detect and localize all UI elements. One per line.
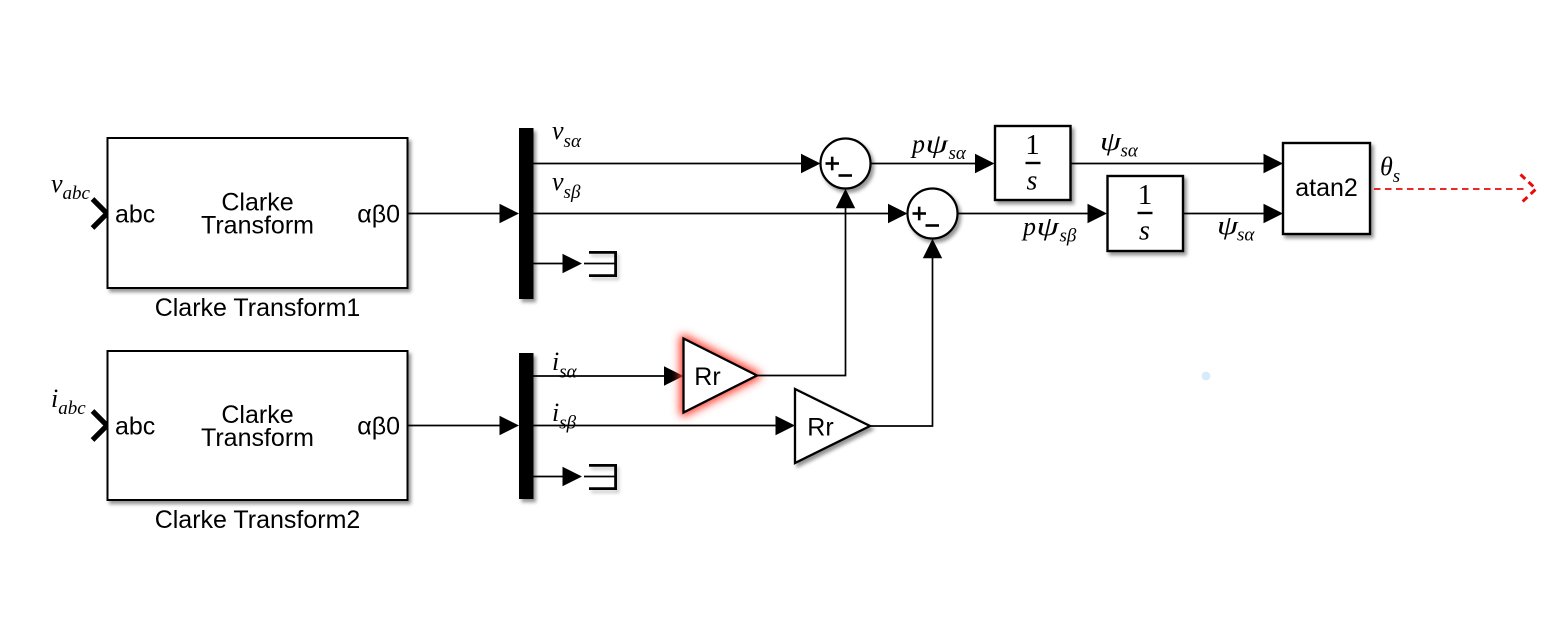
signal label i_sa xyxy=(552,347,578,383)
svg-text:Transform: Transform xyxy=(201,212,314,240)
svg-text:αβ0: αβ0 xyxy=(357,413,400,441)
wire Sum2 to Integrator2 xyxy=(958,213,1089,215)
demux Demux1 xyxy=(519,128,534,299)
terminator Terminator1 xyxy=(584,252,616,275)
signal label i_sb xyxy=(552,398,577,434)
svg-text:abc: abc xyxy=(115,201,155,229)
integrator block Integrator1 xyxy=(995,126,1071,200)
wire v_sa : demux1 out1 to Sum1 xyxy=(534,163,802,165)
svg-text:abc: abc xyxy=(115,413,155,441)
wire demux1 out3 to Terminator1 xyxy=(534,263,564,265)
signal label p psi_sa xyxy=(910,129,967,164)
wire v_sb : demux1 out2 to Sum2 xyxy=(534,213,889,215)
svg-text:αβ0: αβ0 xyxy=(357,201,400,229)
svg-text:Rr: Rr xyxy=(807,414,833,442)
svg-text:sα: sα xyxy=(1237,225,1255,246)
wire i_sb : demux2 out2 to Gain Rr2 xyxy=(534,425,777,427)
svg-text:Transform: Transform xyxy=(201,424,314,452)
atan2 block xyxy=(1283,143,1370,234)
svg-text:p: p xyxy=(910,130,925,159)
wire Rr2 to Sum2 (right then up) xyxy=(870,258,933,427)
svg-text:ψ: ψ xyxy=(1100,127,1122,156)
Clarke Transform1 block xyxy=(108,138,408,288)
svg-text:Clarke Transform2: Clarke Transform2 xyxy=(155,506,361,534)
signal label psi_sa (top) xyxy=(1100,127,1139,162)
cursor dot (light blue) xyxy=(1202,372,1211,381)
wire demux2 out3 to Terminator2 xyxy=(534,476,564,478)
output label theta_s xyxy=(1380,152,1400,187)
input port chevron for Clarke Transform2 xyxy=(93,411,108,440)
input port label i_abc xyxy=(51,384,86,419)
svg-text:1: 1 xyxy=(1138,179,1153,211)
wire Clarke Transform2 to Demux2 xyxy=(409,425,501,427)
wire Integrator2 to atan2 xyxy=(1184,213,1265,215)
gain block Rr1 (selected, red glow) xyxy=(684,339,758,413)
demux Demux2 xyxy=(519,353,534,499)
svg-text:sα: sα xyxy=(1121,141,1139,162)
svg-text:p: p xyxy=(1021,212,1036,241)
svg-text:Rr: Rr xyxy=(694,363,720,391)
svg-text:sβ: sβ xyxy=(1060,226,1077,247)
svg-text:s: s xyxy=(1027,166,1038,197)
wire Clarke Transform1 to Demux1 xyxy=(409,213,501,215)
sum block Sum2 xyxy=(908,189,958,239)
svg-text:1: 1 xyxy=(1025,129,1040,161)
svg-text:ψ: ψ xyxy=(1037,212,1060,241)
svg-text:sα: sα xyxy=(949,143,967,164)
svg-text:s: s xyxy=(1139,216,1150,247)
signal label psi_sa (bottom) xyxy=(1217,211,1255,246)
Clarke Transform2 block xyxy=(108,351,408,500)
svg-text:Clarke Transform1: Clarke Transform1 xyxy=(155,294,361,322)
input port chevron for Clarke Transform1 xyxy=(93,199,108,228)
red dashed open arrowhead xyxy=(1521,175,1537,204)
gain block Rr2 xyxy=(795,389,870,463)
signal label p psi_sb xyxy=(1021,212,1077,247)
red dashed unconnected wire from atan2 xyxy=(1374,188,1527,190)
wire Sum1 to Integrator1 xyxy=(871,163,976,165)
svg-text:ψ: ψ xyxy=(926,129,949,158)
terminator Terminator2 xyxy=(584,465,616,488)
sum block Sum1 xyxy=(821,139,871,189)
arrow into Sum2 bottom xyxy=(923,239,942,258)
signal label v_sa xyxy=(552,116,582,152)
svg-text:atan2: atan2 xyxy=(1295,174,1358,202)
wire Integrator1 to atan2 xyxy=(1071,163,1265,165)
wire Rr1 to Sum1 (right then up) xyxy=(757,208,846,376)
arrow into Sum1 bottom xyxy=(836,189,855,209)
input port label v_abc xyxy=(51,169,91,204)
integrator block Integrator2 xyxy=(1108,176,1184,251)
wire i_sa : demux2 out1 to Gain Rr1 xyxy=(534,375,665,377)
signal label v_sb xyxy=(552,167,581,203)
